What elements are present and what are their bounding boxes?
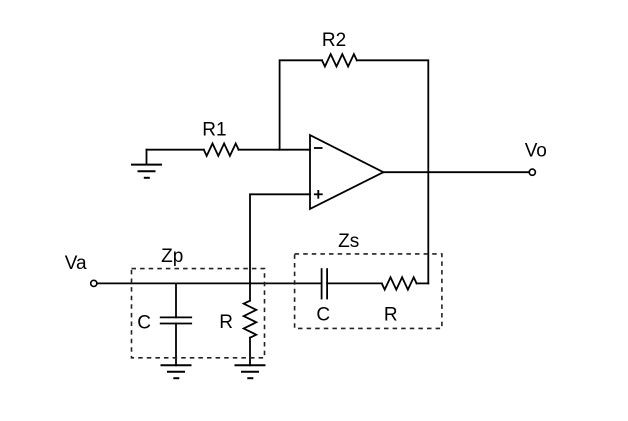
svg-text:R: R — [384, 304, 398, 325]
svg-text:Va: Va — [65, 253, 87, 274]
svg-text:Zs: Zs — [338, 231, 359, 252]
svg-text:R1: R1 — [202, 119, 226, 140]
svg-text:R2: R2 — [322, 30, 346, 51]
svg-text:Zp: Zp — [161, 246, 183, 267]
svg-text:C: C — [316, 304, 330, 325]
svg-text:Vo: Vo — [525, 141, 547, 162]
svg-text:C: C — [137, 313, 151, 334]
svg-text:R: R — [219, 312, 233, 333]
